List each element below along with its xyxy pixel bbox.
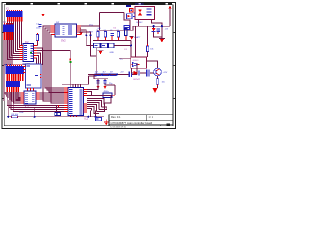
component K1 left pins xyxy=(23,67,26,73)
wire IC1 left pins to bus xyxy=(43,26,51,42)
connector X4 pin band xyxy=(7,87,19,92)
wire bus down from ISP xyxy=(43,40,64,103)
svg-text:R3 10k: R3 10k xyxy=(12,114,18,116)
ground symbol GND1 xyxy=(79,32,83,35)
outer border frame xyxy=(2,2,176,128)
svg-text:C4: C4 xyxy=(117,30,119,32)
svg-text:4MHz: 4MHz xyxy=(104,91,109,93)
connector X2 body xyxy=(3,25,14,32)
junction dots bottom rail xyxy=(7,116,36,118)
IC3 body xyxy=(24,91,36,104)
title block outline xyxy=(109,115,173,126)
crystal Q1 body xyxy=(103,93,112,98)
wire mesh mcu right xyxy=(87,80,115,115)
connector X4 body xyxy=(6,81,20,87)
wire Q3 collector up xyxy=(146,61,157,68)
IC1 body (top header) xyxy=(55,24,77,37)
LED1 xyxy=(69,58,71,63)
jumper JP1 mark xyxy=(95,45,98,46)
svg-text:SV2: SV2 xyxy=(61,40,66,43)
wire bus into IC3 left xyxy=(4,92,20,103)
labels 4k7 xyxy=(95,72,113,74)
junction dots mid rail xyxy=(101,74,118,76)
title block dark cell xyxy=(167,123,170,125)
svg-text:4k7: 4k7 xyxy=(103,72,106,74)
wire IC2 right pins routing xyxy=(4,42,71,65)
capacitor C6 gnd xyxy=(103,84,106,90)
wire bottom rail xyxy=(8,100,70,117)
IC2 right pins xyxy=(34,46,38,59)
connector X1 body xyxy=(6,11,23,17)
connector X3 body xyxy=(6,66,25,74)
connector X2 pin band xyxy=(4,32,13,40)
diode D1 xyxy=(152,28,156,32)
capacitor C11 xyxy=(129,72,132,78)
rail junction dots xyxy=(152,25,163,27)
wire bridge to rail xyxy=(133,9,170,39)
resistor R6 xyxy=(117,32,119,41)
junction dots bottom center xyxy=(87,116,96,118)
wire xtal top xyxy=(94,75,108,81)
diode D6 red square xyxy=(130,9,133,12)
diode D5 xyxy=(134,71,140,76)
TITLE BLOCK xyxy=(109,115,173,129)
mcu left pins xyxy=(64,88,68,112)
connector X1 pin band xyxy=(7,17,22,21)
junction dots near IC1 xyxy=(85,34,91,36)
connector X1 top pin stubs xyxy=(7,10,22,11)
resistor R8 xyxy=(36,33,38,42)
wire relay to diode xyxy=(132,68,147,73)
bridge B1 ac marks xyxy=(147,9,152,16)
component K1 inner marks xyxy=(27,66,39,86)
svg-text:100n: 100n xyxy=(36,28,40,30)
IC2 green mark xyxy=(30,52,32,54)
wire IC1 right pins routing xyxy=(81,26,100,56)
mcu pin name text right column xyxy=(79,89,82,114)
bridge B1 diodes xyxy=(138,9,142,15)
capacitor C10 tall xyxy=(125,29,127,41)
component K1 body xyxy=(26,64,42,88)
origin cross arrowheads xyxy=(105,123,108,125)
jumper JP3 xyxy=(109,43,115,48)
svg-text:VCC: VCC xyxy=(89,24,94,26)
IC3 left pins xyxy=(20,93,24,103)
connector X2 top stubs xyxy=(4,23,13,24)
wire loop y12.5 xyxy=(97,13,133,31)
IC3 right pins xyxy=(36,93,40,99)
wire bus conn X4 down xyxy=(7,92,64,112)
IC1 mcu body xyxy=(68,88,84,116)
IC2 left pins xyxy=(20,46,24,60)
IC3 inner marks xyxy=(25,93,34,104)
component bits right xyxy=(133,13,135,18)
wire jumper row xyxy=(86,41,131,59)
wire bus X1 to IC2 xyxy=(7,22,21,60)
wire Q3 down xyxy=(157,76,159,88)
connector X3 pin band xyxy=(6,74,23,81)
resistor R3 xyxy=(11,116,18,118)
svg-text:B250C: B250C xyxy=(137,22,144,24)
wire rail to R2 xyxy=(147,26,149,57)
component U3 mark xyxy=(126,5,131,7)
wire rail left leg down xyxy=(135,26,137,57)
mcu bottom pins xyxy=(71,116,77,117)
wire bottom to titleblock xyxy=(70,111,104,117)
svg-text:C2: C2 xyxy=(104,30,106,32)
supply +5V mark xyxy=(42,14,45,17)
component K1 bottom pins xyxy=(28,88,34,91)
wire mid row xyxy=(119,58,131,60)
IC2 body xyxy=(23,44,34,62)
bridge B1 outline xyxy=(135,6,155,19)
IC1 left pins xyxy=(51,26,56,35)
component L1 xyxy=(124,26,130,30)
row labels xyxy=(96,30,119,32)
connector X3 top pin stubs xyxy=(7,64,22,66)
title block h-line 1 xyxy=(109,120,173,122)
resistor R4 xyxy=(97,32,99,41)
jumper JP2 xyxy=(101,43,108,48)
crystal Q1 pins xyxy=(100,94,115,96)
top frame section tick band xyxy=(6,3,172,4)
resistor row mid: R10 xyxy=(95,74,101,76)
origin cross marker xyxy=(104,120,109,125)
IC1 right pins xyxy=(77,26,82,35)
capacitor C8 xyxy=(156,29,159,35)
mcu pin name text left column xyxy=(69,89,72,114)
relay K2 coil triangle xyxy=(131,63,139,67)
svg-text:VBATT: VBATT xyxy=(134,36,141,39)
wire LED down xyxy=(69,63,71,84)
svg-text:Rev. 0.1: Rev. 0.1 xyxy=(111,115,121,119)
wire IC3 right to IC1 xyxy=(40,93,64,99)
svg-text:1 / 1: 1 / 1 xyxy=(149,117,154,119)
wire top bundle into IC1 mcu xyxy=(62,48,96,88)
transistor Q3 xyxy=(154,68,162,76)
svg-text:+12V: +12V xyxy=(163,72,168,74)
ground T symbol xyxy=(159,38,165,42)
capacitor C5 plates xyxy=(97,80,100,83)
jumper JP2 mark xyxy=(102,45,105,46)
svg-text:1 PIC16F877 main controller bo: 1 PIC16F877 main controller board xyxy=(110,121,152,125)
wire bus X2 down xyxy=(4,40,12,101)
resistor R2 xyxy=(147,44,149,52)
capacitor C7 plates xyxy=(38,24,41,27)
diode D4 xyxy=(55,112,61,115)
svg-text:4k7: 4k7 xyxy=(95,72,98,74)
resistor R12 xyxy=(110,74,116,76)
wire cap to Q3 xyxy=(150,72,154,74)
svg-text:G5V-1: G5V-1 xyxy=(133,60,140,62)
wire mid resistor rail xyxy=(88,74,129,76)
inner border frame xyxy=(4,5,173,126)
frame row tick right xyxy=(173,32,175,99)
frame row tick left xyxy=(3,32,5,99)
red stub xyxy=(58,105,59,107)
svg-text:4k7: 4k7 xyxy=(110,72,113,74)
capacitor C5 gnd xyxy=(96,84,99,90)
svg-text:BC547: BC547 xyxy=(134,79,141,81)
gnd symbol below JP xyxy=(98,48,104,55)
svg-text:POWER: POWER xyxy=(135,4,144,6)
junction dots on bus xyxy=(5,64,11,66)
resistor R11 xyxy=(103,74,109,76)
capacitor C6 plates xyxy=(104,80,107,83)
wire cap to relay xyxy=(132,63,137,75)
svg-text:C1: C1 xyxy=(96,30,98,32)
IC2 pin name text xyxy=(24,45,33,60)
component K1 right marks xyxy=(40,74,42,78)
svg-text:100k: 100k xyxy=(19,112,23,114)
mcu right pins xyxy=(84,90,88,113)
svg-text:10k: 10k xyxy=(162,82,165,84)
relay K2 outline xyxy=(131,57,147,68)
component D3 small xyxy=(96,117,102,120)
junction dot jumper rail xyxy=(130,45,132,47)
capacitor C9 xyxy=(111,33,114,41)
svg-text:C3: C3 xyxy=(110,30,112,32)
gnd sym right of row xyxy=(129,37,133,40)
svg-text:GND: GND xyxy=(110,52,115,54)
ground rail under row xyxy=(93,40,131,42)
power arrow top right xyxy=(169,5,172,8)
IC1 pin name text xyxy=(56,26,72,35)
power arrow down xyxy=(77,108,79,112)
svg-text:10k: 10k xyxy=(150,49,153,51)
title block v-line xyxy=(146,115,148,121)
title block h-line 2 xyxy=(109,124,173,126)
jumper JP1 xyxy=(94,43,101,48)
svg-text:12.04.2004 19:10: 12.04.2004 19:10 xyxy=(110,126,126,128)
title block bottom cells xyxy=(160,125,162,126)
component D2 xyxy=(127,14,133,19)
power arrow down right xyxy=(153,88,158,93)
resistor R5 xyxy=(104,32,106,41)
capacitor C12 xyxy=(146,69,150,76)
resistor R7 vertical xyxy=(156,79,158,86)
